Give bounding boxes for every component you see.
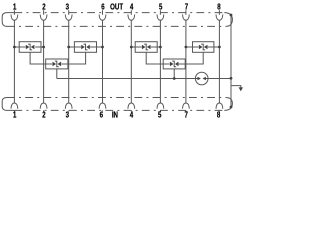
terminal 8 bottom tick (218, 110, 220, 111)
U6 left pin (163, 63, 170, 65)
wire line 6 (102, 20, 104, 103)
terminal 4 bottom socket (128, 103, 135, 109)
enclosure border bottom inner dash-dot line (7, 97, 226, 99)
terminal 3 top tick (68, 10, 70, 15)
terminal 2 bottom socket (40, 103, 47, 109)
svg-text:2: 2 (42, 109, 45, 119)
junction dot U5 right (218, 46, 221, 49)
terminal 3 top socket (65, 15, 72, 21)
U5 left pin (186, 46, 199, 48)
svg-text:4: 4 (130, 2, 134, 12)
svg-text:5: 5 (159, 2, 162, 12)
svg-text:7: 7 (185, 2, 188, 12)
terminal 2 top socket (40, 15, 47, 21)
terminal 5 bottom tick (159, 110, 161, 111)
terminal 8 bottom socket (216, 103, 223, 109)
suppressor box U4 (lines 4-5) (135, 42, 157, 53)
terminal 3 bottom tick (68, 110, 70, 111)
ground bus wire right of gas discharge tube (208, 78, 231, 80)
wire line 7 (185, 20, 187, 103)
terminal 6 bottom tick (102, 110, 104, 111)
F1 left electrode shaft (195, 78, 197, 80)
TVS symbol U5 (199, 44, 208, 51)
svg-text:3: 3 (66, 2, 69, 12)
TVS symbol U4 (142, 44, 151, 51)
svg-text:8: 8 (217, 109, 220, 119)
TVS symbol U1 (26, 44, 35, 51)
bypass wire (right edge) (230, 15, 232, 107)
terminal 1 top socket (11, 15, 18, 21)
svg-text:6: 6 (100, 109, 103, 119)
enclosure border top-left loop (2, 13, 14, 27)
svg-text:2: 2 (42, 2, 45, 12)
enclosure border top outer dash-dot line (14, 12, 224, 14)
suppressor box U3 (center tap 1-2 / 3-6) (46, 59, 68, 69)
U1 bottom stub (30, 52, 46, 64)
wire line 2 (43, 20, 45, 103)
suppressor box U1 (lines 1-2) (19, 42, 41, 53)
U3 ground stub (56, 69, 58, 79)
TVS symbol U3 (53, 61, 62, 68)
wire line 1 (13, 20, 15, 103)
U2 right pin (90, 46, 103, 48)
svg-text:OUT: OUT (110, 2, 123, 12)
U3 left pin (46, 63, 53, 65)
terminal 4 top tick (130, 10, 132, 15)
enclosure border bottom-left loop (2, 98, 14, 111)
F1 right electrode shaft (206, 78, 208, 80)
terminal 7 bottom tick (185, 110, 187, 111)
terminal 7 top socket (183, 15, 190, 21)
terminal 7 bottom socket (183, 103, 190, 109)
enclosure border top inner dash-dot line (7, 25, 226, 27)
svg-text:5: 5 (158, 109, 161, 119)
terminal 4 bottom tick (130, 110, 132, 111)
U5 right pin (208, 46, 220, 48)
U3 right pin (61, 63, 68, 65)
junction dot U5 left (185, 46, 188, 49)
terminal 1 bottom socket (11, 103, 18, 109)
U6 right pin (179, 63, 186, 65)
earth branch wire (231, 86, 241, 88)
U6 ground stub (173, 69, 175, 79)
terminal 3 bottom socket (65, 103, 72, 109)
wire line 8 (218, 20, 220, 103)
U2 left pin (69, 46, 81, 48)
terminal 6 bottom socket (99, 103, 106, 109)
terminal 6 top socket (99, 15, 106, 21)
U4 left pin (131, 46, 141, 48)
U4 right pin (151, 46, 161, 48)
wire line 4 (130, 20, 132, 103)
terminal 4 top socket (128, 15, 135, 21)
U1 left pin (14, 46, 25, 48)
junction dot bypass top (230, 14, 233, 17)
junction dot U4 right (159, 46, 162, 49)
terminal 1 top tick (13, 10, 15, 15)
TVS symbol U6 (170, 61, 179, 68)
suppressor box U6 (center tap 4-5 / 7-8) (163, 59, 185, 69)
enclosure border top-right loop (224, 13, 232, 27)
U1 right pin (35, 46, 43, 48)
terminal 5 bottom socket (157, 103, 164, 109)
terminal 7 top tick (185, 10, 187, 15)
terminal 2 bottom tick (43, 110, 45, 111)
ground bus wire (57, 78, 196, 80)
terminal 5 top tick (159, 10, 161, 15)
svg-text:1: 1 (13, 109, 16, 119)
wire line 3 (68, 20, 70, 103)
suppressor box U5 (lines 7-8) (193, 42, 214, 53)
F1 left electrode arrowhead (198, 77, 201, 81)
junction dot U1 right (42, 46, 45, 49)
suppressor box U2 (lines 3-6) (74, 42, 96, 53)
junction dot U2 right (101, 46, 104, 49)
junction dot bypass bottom (230, 106, 233, 109)
svg-text:IN: IN (112, 109, 118, 119)
terminal 8 top socket (216, 15, 223, 21)
terminal 6 top tick (102, 10, 104, 15)
terminal 8 top tick (218, 10, 220, 15)
U5 bottom stub (185, 52, 203, 64)
enclosure border bottom-right loop (224, 98, 232, 111)
svg-text:1: 1 (13, 2, 16, 12)
svg-text:4: 4 (130, 109, 134, 119)
svg-text:6: 6 (101, 2, 104, 12)
U2 bottom stub (68, 52, 86, 64)
junction dot U4 left (130, 46, 133, 49)
junction dot U6 ground stub / bus (173, 77, 176, 80)
wire line 5 (159, 20, 161, 103)
earth arrowhead (239, 87, 243, 91)
enclosure border bottom outer dash-dot line (14, 109, 224, 111)
junction dot U2 left (67, 46, 70, 49)
terminal 1 bottom tick (13, 110, 15, 111)
svg-text:8: 8 (217, 2, 220, 12)
terminal 2 top tick (43, 10, 45, 15)
junction dot bypass / bus (230, 77, 233, 80)
terminal 5 top socket (157, 15, 164, 21)
TVS symbol U2 (81, 44, 90, 51)
U4 bottom stub (146, 52, 163, 64)
F1 right electrode arrowhead (203, 77, 206, 81)
svg-text:7: 7 (184, 109, 187, 119)
junction dot U1 left (13, 46, 16, 49)
svg-text:3: 3 (66, 109, 69, 119)
gas discharge tube F1 (195, 72, 208, 85)
